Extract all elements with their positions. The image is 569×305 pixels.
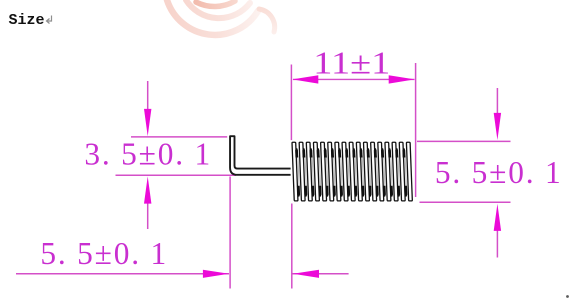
coil turn 9: [349, 142, 357, 201]
watermark inner arc: [186, 0, 250, 18]
right arrow of 11 dim: [389, 75, 415, 83]
extension line right of coil (11 dim): [415, 63, 417, 197]
watermark small top arc: [196, 1, 235, 7]
paragraph return mark: [47, 16, 52, 24]
extension line left (pin) of bottom 5.5 dim: [229, 177, 231, 289]
coil turn 14: [385, 142, 393, 201]
svg-text:3. 5±0. 1: 3. 5±0. 1: [84, 137, 212, 172]
up arrow of right 5.5 dim: [494, 204, 501, 258]
dimension text bottom 5.5±0.1: [40, 236, 168, 271]
dimension text 3.5±0.1: [84, 137, 212, 172]
extension line top of feed pin (3.5 dim): [131, 136, 227, 138]
coil turn 11: [363, 142, 371, 201]
right-pointing arrow of bottom 5.5 dim: [203, 270, 229, 278]
dimension text right 5.5±0.1: [435, 155, 563, 190]
coil turn 3: [306, 142, 314, 201]
coil turn 4: [313, 142, 321, 201]
antenna feed pin (bent wire): [230, 136, 292, 175]
coil turn 8: [342, 142, 350, 201]
coil turn 17: [406, 142, 412, 201]
coil turn 13: [378, 142, 386, 201]
dimension line right part bottom 5.5: [292, 273, 349, 275]
svg-text:5. 5±0. 1: 5. 5±0. 1: [435, 155, 563, 190]
watermark swoosh tail: [259, 9, 275, 32]
speck bottom right: [566, 295, 569, 298]
up arrow of 3.5 dim: [144, 176, 151, 229]
coil turn 1: [292, 142, 300, 201]
svg-text:11±1: 11±1: [313, 46, 390, 81]
coil body background: [291, 140, 415, 203]
coil turn 6: [328, 142, 336, 201]
extension line left of coil (11 dim): [290, 65, 292, 141]
dimension line left part bottom 5.5: [16, 273, 229, 275]
coil turn 10: [356, 142, 364, 201]
coil turn 16: [399, 142, 407, 201]
left arrow of 11 dim: [292, 75, 318, 83]
extension line bottom of feed wire (3.5 dim): [116, 174, 236, 176]
label Size: [9, 12, 45, 29]
coil turn 5: [321, 142, 329, 201]
down arrow of right 5.5 dim: [494, 88, 501, 140]
svg-text:Size: Size: [9, 12, 45, 29]
dimension text 11±1: [313, 46, 390, 81]
coil turn 2: [299, 142, 307, 201]
svg-text:5. 5±0. 1: 5. 5±0. 1: [40, 236, 168, 271]
down arrow of 3.5 dim: [144, 81, 151, 136]
coil turn 7: [335, 142, 343, 201]
watermark outer arc: [167, 0, 258, 35]
coil turn 12: [371, 142, 379, 201]
extension line right (coil start) of bottom 5.5 dim: [291, 204, 293, 289]
dimension line 11: [293, 78, 415, 80]
coil turn 15: [392, 142, 400, 201]
extension line top of coil (right 5.5 dim): [417, 140, 511, 142]
extension line bottom of coil (right 5.5 dim): [420, 201, 511, 203]
left-pointing arrow of bottom 5.5 dim: [293, 270, 319, 278]
